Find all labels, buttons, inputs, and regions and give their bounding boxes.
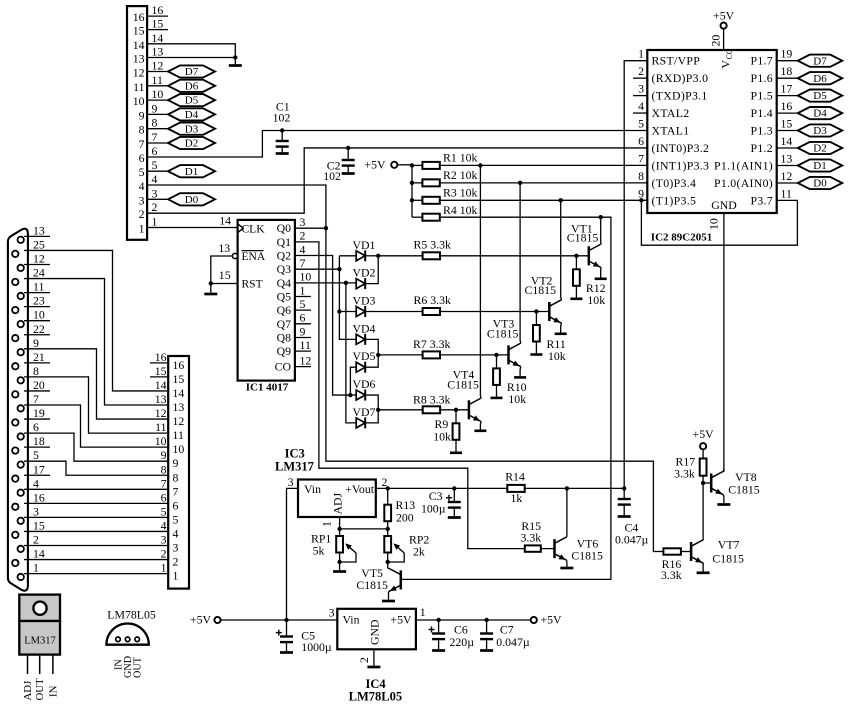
wire VT2 collector: [560, 200, 563, 299]
trimmer RP1: [339, 529, 341, 536]
svg-text:6: 6: [139, 151, 145, 165]
node D2 flag at X1 pin 7: [168, 137, 215, 149]
wire VD5 anode from Q2 node: [350, 367, 356, 395]
wire R7 row to VT3 base: [378, 354, 508, 356]
svg-text:5: 5: [638, 117, 644, 131]
svg-text:102: 102: [323, 169, 341, 183]
svg-text:13: 13: [33, 223, 45, 237]
svg-text:+5V: +5V: [541, 613, 563, 627]
wire IC1 Q4 to VD2 and VD7 anodes: [295, 282, 356, 284]
ground at VT4 emitter: [474, 429, 486, 432]
svg-text:7: 7: [300, 256, 306, 270]
wire IC1 Q8 stub: [295, 336, 311, 338]
svg-text:6: 6: [33, 420, 39, 434]
svg-text:3: 3: [173, 541, 179, 555]
svg-text:7: 7: [638, 151, 644, 165]
svg-text:9: 9: [161, 448, 167, 462]
svg-text:(T1)P3.5: (T1)P3.5: [652, 193, 697, 207]
resistor R8: [423, 406, 440, 413]
svg-text:C1815: C1815: [571, 549, 603, 563]
svg-text:22: 22: [33, 322, 45, 336]
resistor R4: [412, 216, 422, 218]
ground at R12: [570, 297, 582, 300]
svg-text:19: 19: [781, 47, 793, 61]
svg-text:2: 2: [300, 229, 306, 243]
wire VT7 collector diag join: [702, 537, 704, 540]
connector X2 DB25 pin 15 contact: [12, 532, 18, 538]
svg-text:R2 10k: R2 10k: [443, 168, 478, 182]
wire IC1 Q7 stub: [295, 323, 311, 325]
wire X2 pin 3 to X3 pin 5: [24, 516, 168, 518]
svg-text:5: 5: [33, 448, 39, 462]
svg-text:R7 3.3k: R7 3.3k: [413, 337, 450, 351]
wire pull-up spine: [411, 165, 413, 217]
wire X1 pin 2 to IC2 P3.2 (with C2): [147, 148, 647, 213]
svg-text:9: 9: [139, 108, 145, 122]
wire X1 pin 1 to IC1 CLK: [147, 227, 238, 229]
svg-text:200: 200: [396, 511, 414, 525]
svg-text:D6: D6: [185, 80, 199, 92]
svg-text:10: 10: [33, 308, 45, 322]
svg-text:12: 12: [173, 414, 185, 428]
resistor R9: [455, 410, 457, 424]
wire X2 pin 19 stub: [24, 418, 50, 420]
wire X2 pin 13 stub: [24, 235, 50, 237]
wire IC2 pin4 stub: [633, 112, 647, 114]
svg-text:C1815: C1815: [567, 231, 599, 245]
svg-text:RST/VPP: RST/VPP: [652, 54, 701, 68]
svg-text:13: 13: [152, 45, 164, 59]
svg-text:C1815: C1815: [728, 483, 760, 497]
svg-text:11: 11: [152, 73, 163, 87]
svg-text:LM78L05: LM78L05: [107, 608, 156, 622]
wire X1 pin13 to ground: [147, 57, 235, 59]
svg-text:8: 8: [638, 169, 644, 183]
wire X1 pin15 stub: [147, 29, 168, 31]
wire X1 pin 12 to flag: [147, 71, 168, 73]
wire VD5 cathode up to R7 node: [365, 355, 378, 367]
svg-text:R8 3.3k: R8 3.3k: [413, 393, 450, 407]
junction C5 / IC3 Vin riser: [284, 618, 288, 622]
svg-text:12: 12: [33, 252, 45, 266]
junction R9 top: [454, 408, 458, 412]
svg-text:8: 8: [173, 470, 179, 484]
svg-text:10k: 10k: [433, 429, 451, 443]
IC3 LM317 body: [298, 480, 376, 518]
resistor R12: [575, 256, 577, 269]
connector X2 DB25 pin 3 contact: [18, 518, 24, 524]
wire VT4 collector: [479, 165, 482, 398]
svg-text:VD7: VD7: [353, 405, 376, 419]
wire X2 pin 22 stub: [24, 334, 50, 336]
svg-text:14: 14: [155, 378, 167, 392]
svg-text:D0: D0: [185, 194, 199, 206]
wire IC1 Q1 route to R15 to VT6 base: [295, 242, 525, 549]
wire VT5 collector: [387, 567, 390, 569]
wire IC1 Q0 to node: [295, 227, 326, 229]
wire IC2 pin 14 to flag: [777, 147, 798, 149]
svg-text:12: 12: [300, 353, 312, 367]
svg-text:4: 4: [300, 242, 306, 256]
svg-text:ENA: ENA: [242, 251, 266, 263]
svg-text:Q1: Q1: [277, 235, 292, 249]
svg-text:RST: RST: [242, 279, 263, 291]
svg-text:R5 3.3k: R5 3.3k: [414, 238, 451, 252]
svg-text:Q5: Q5: [277, 290, 292, 304]
svg-text:17: 17: [781, 82, 793, 96]
wire X2 pin 16 to X3 pin 6: [24, 502, 168, 504]
svg-text:9: 9: [33, 336, 39, 350]
junction VT2 collector on pull-up row: [559, 198, 563, 202]
svg-text:13: 13: [173, 400, 185, 414]
ground at X1 pins 13/14: [234, 58, 236, 66]
wire VT7 emitter to ground: [702, 563, 704, 573]
wire X1 pin 8 to flag: [147, 128, 168, 130]
connector X2 DB25 pin 18 contact: [12, 447, 18, 453]
node D4 flag at IC2 pin 16: [798, 107, 842, 119]
svg-text:ADJ: ADJ: [22, 681, 34, 701]
diode VD1: [356, 251, 365, 261]
connector X2 DB25 pin 7 contact: [18, 405, 24, 411]
svg-text:2k: 2k: [413, 545, 425, 559]
svg-text:+5V: +5V: [693, 427, 715, 441]
svg-text:8: 8: [161, 462, 167, 476]
ground at VT7 emitter: [697, 571, 710, 574]
transistor VT8 C1815: [710, 474, 713, 493]
node D1 flag at X1 pin 5: [168, 165, 215, 177]
IC2 Vcc pin 20: [723, 29, 725, 50]
junction VT4 collector on pull-up row: [478, 163, 482, 167]
resistor R3: [412, 199, 422, 201]
svg-text:3: 3: [152, 186, 158, 200]
connector X2 DB25 pin 14 contact: [12, 560, 18, 566]
svg-text:(TXD)P3.1: (TXD)P3.1: [652, 89, 708, 103]
svg-text:3.3k: 3.3k: [674, 467, 695, 481]
wire VD6 anode: [350, 394, 356, 396]
wire VT4 emitter to ground: [479, 422, 482, 431]
wire X1 pin 5 to flag: [147, 170, 168, 172]
svg-text:16: 16: [152, 3, 164, 17]
svg-text:P3.7: P3.7: [750, 193, 773, 207]
svg-text:VD5: VD5: [353, 349, 376, 363]
svg-text:5: 5: [300, 297, 306, 311]
ground at VT6 emitter: [560, 567, 573, 570]
svg-text:(RXD)P3.0: (RXD)P3.0: [652, 71, 709, 85]
junction R7 node: [376, 353, 380, 357]
svg-text:Q4: Q4: [277, 276, 292, 290]
wire IC1 ENA to ground: [211, 256, 233, 284]
junction R8 node: [376, 408, 380, 412]
wire VT6 emitter to ground: [566, 560, 568, 568]
svg-text:6: 6: [300, 311, 306, 325]
svg-text:19: 19: [33, 406, 45, 420]
svg-text:7: 7: [173, 484, 179, 498]
connector X2 DB25 pin 22 contact: [12, 335, 18, 341]
svg-text:D4: D4: [813, 108, 827, 120]
svg-text:VD2: VD2: [353, 266, 376, 280]
wire IC2 pin1 RST/VPP to VPP node: [624, 61, 647, 489]
svg-text:3: 3: [139, 193, 145, 207]
connector X2 DB25 pin 16 contact: [12, 504, 18, 510]
svg-text:5: 5: [152, 158, 158, 172]
svg-text:1: 1: [161, 561, 167, 575]
svg-text:14: 14: [133, 38, 145, 52]
svg-text:P1.2: P1.2: [750, 141, 773, 155]
svg-text:D5: D5: [813, 90, 827, 102]
wire X3 pin15 stub: [150, 376, 168, 378]
ground at VT8 emitter: [717, 503, 730, 506]
node D5 flag at IC2 pin 17: [798, 90, 842, 102]
wire X2 pin 4 to X3 pin 7: [24, 488, 168, 490]
svg-text:D1: D1: [813, 160, 826, 172]
+5V terminal at IC2 Vcc: [721, 23, 727, 29]
connector X2 DB25 pin 1 contact: [18, 574, 24, 580]
svg-text:16: 16: [133, 10, 145, 24]
svg-text:R14: R14: [505, 470, 525, 484]
connector X2 DB25 pin 24 contact: [12, 279, 18, 285]
node D5 flag at X1 pin 10: [168, 94, 215, 106]
svg-text:IC3: IC3: [285, 447, 305, 461]
wire VT3 collector: [519, 183, 522, 343]
svg-text:3.3k: 3.3k: [661, 568, 682, 582]
svg-text:10: 10: [133, 94, 145, 108]
capacitor C4 0.047u: [623, 488, 625, 499]
ground at VT3 emitter: [514, 376, 526, 379]
svg-text:15: 15: [152, 17, 164, 31]
svg-text:2: 2: [357, 657, 371, 663]
svg-text:P1.1(AIN1): P1.1(AIN1): [714, 159, 773, 173]
svg-text:12: 12: [781, 169, 793, 183]
wire IC3 Vin pin3 down to +5V rail: [287, 488, 299, 620]
wire X1 pin14 to ground: [147, 44, 235, 58]
LM78L05 package pins: [116, 637, 121, 642]
wire IC2 pin2 stub: [633, 77, 647, 79]
svg-text:+Vout: +Vout: [345, 482, 374, 496]
wire IC1 Q5 stub: [295, 296, 311, 298]
resistor R15: [525, 545, 541, 551]
wire VT5 emitter to ground: [388, 592, 390, 601]
svg-text:100µ: 100µ: [421, 502, 446, 516]
wire IC4 output rail: [416, 619, 531, 621]
LM317 package hole: [33, 602, 46, 615]
svg-text:1k: 1k: [511, 491, 523, 505]
wire +5V to spine: [397, 164, 412, 166]
svg-text:R4 10k: R4 10k: [443, 203, 478, 217]
wire VD4 cathode down to R7 node: [365, 339, 378, 355]
wire R1 to IC2 pin7: [440, 164, 648, 166]
wire IC2 pin 17 to flag: [777, 95, 798, 97]
ground at RP1: [339, 562, 341, 572]
wire X2 pin 18 stub: [24, 446, 50, 448]
wire VT1 emitter to ground: [600, 268, 602, 279]
svg-text:4: 4: [173, 526, 179, 540]
wire VD7 cathode up to R8 node: [365, 410, 378, 423]
svg-text:3: 3: [300, 215, 306, 229]
capacitor C2: [347, 148, 349, 160]
node D2 flag at IC2 pin 14: [798, 142, 842, 154]
junction R11 top: [534, 309, 538, 313]
wire X2 pin 23 stub: [24, 306, 50, 308]
svg-text:D6: D6: [813, 73, 827, 85]
svg-text:9: 9: [173, 456, 179, 470]
svg-text:10: 10: [155, 434, 167, 448]
svg-text:GND: GND: [711, 198, 737, 212]
svg-text:D3: D3: [185, 123, 199, 135]
svg-text:4: 4: [33, 476, 39, 490]
svg-text:D5: D5: [185, 95, 199, 107]
svg-text:5: 5: [173, 512, 179, 526]
svg-text:4: 4: [638, 99, 644, 113]
connector X2 DB25 pin 4 contact: [18, 490, 24, 496]
svg-text:13: 13: [781, 152, 793, 166]
LM317 package body: [19, 621, 60, 655]
wire X2 pin 11 stub: [24, 292, 50, 294]
wire IC1 Q2 to VD5/VD6 anodes: [295, 256, 351, 396]
svg-text:12: 12: [133, 66, 145, 80]
connector X2 DB25 pin 13 contact: [18, 237, 24, 243]
svg-text:Q7: Q7: [277, 317, 292, 331]
wire R4 row to VT5 base: [401, 217, 611, 579]
junction R10 top: [494, 353, 498, 357]
svg-text:7: 7: [161, 476, 167, 490]
resistor R11: [535, 312, 537, 326]
svg-text:IC1 4017: IC1 4017: [246, 382, 289, 394]
wire VT2 emitter to ground: [560, 323, 563, 334]
capacitor C6 220u: [438, 620, 440, 634]
svg-text:14: 14: [33, 547, 45, 561]
svg-text:9: 9: [152, 101, 158, 115]
node D4 flag at X1 pin 9: [168, 108, 215, 120]
svg-text:XTAL1: XTAL1: [652, 124, 690, 138]
svg-text:13: 13: [155, 392, 167, 406]
svg-text:5: 5: [139, 165, 145, 179]
RP2 wiper arrow: [395, 545, 404, 553]
svg-text:CLK: CLK: [242, 223, 266, 235]
svg-text:11: 11: [133, 80, 144, 94]
svg-text:IN: IN: [47, 685, 59, 697]
svg-text:0.047µ: 0.047µ: [615, 533, 649, 547]
ground at R10: [491, 397, 503, 400]
wire X1 pin 7 to flag: [147, 142, 168, 144]
svg-text:D0: D0: [813, 178, 827, 190]
trimmer RP2: [387, 529, 389, 536]
wire IC1 Q9 stub: [295, 350, 311, 352]
connector X2 DB25 pin 6 contact: [18, 433, 24, 439]
svg-text:P1.7: P1.7: [750, 54, 773, 68]
wire X2 pin 12 stub: [24, 264, 50, 266]
junction ENA/RST: [209, 281, 213, 285]
svg-text:25: 25: [33, 237, 45, 251]
wire X2 pin 21 stub: [24, 362, 50, 364]
wire IC2 pin 16 to flag: [777, 112, 798, 114]
resistor R1: [412, 164, 422, 166]
resistor R13: [386, 486, 390, 490]
transistor VT2 C1815: [548, 302, 551, 321]
wire IC2 pin 12 to flag: [777, 182, 798, 184]
wire IC1 Q3 to VD1/VD3/VD4 anodes: [295, 268, 340, 270]
wire IC2 pin 15 to flag: [777, 130, 798, 132]
svg-text:14: 14: [173, 386, 185, 400]
resistor R7: [423, 351, 440, 358]
svg-text:23: 23: [33, 294, 45, 308]
wire R6 row VD3 cathode to VT2 base: [365, 311, 549, 313]
node D6 flag at IC2 pin 18: [798, 72, 842, 84]
svg-text:2: 2: [152, 200, 158, 214]
wire X1 pin 11 to flag: [147, 85, 168, 87]
IC1 CLK input wedge: [238, 224, 244, 233]
diode VD4: [356, 334, 365, 344]
svg-text:Vin: Vin: [304, 482, 321, 496]
svg-text:7: 7: [33, 392, 39, 406]
svg-text:C1815: C1815: [712, 552, 744, 566]
wire R16 to VT7 base: [681, 551, 691, 553]
svg-text:R3 10k: R3 10k: [443, 186, 478, 200]
wire VT8 emitter to ground: [723, 495, 725, 505]
svg-text:LM78L05: LM78L05: [349, 690, 402, 704]
svg-text:OUT: OUT: [133, 656, 144, 678]
connector X2 DB25 pin 2 contact: [18, 546, 24, 552]
resistor R2: [412, 182, 422, 184]
svg-text:4: 4: [161, 518, 167, 532]
svg-text:14: 14: [152, 31, 164, 45]
svg-text:15: 15: [133, 24, 145, 38]
transistor VT4 C1815: [468, 400, 471, 419]
wire IC3 Vout row: [376, 487, 508, 489]
wire X2 pin 14 to X3 pin 2: [24, 559, 168, 561]
svg-text:3: 3: [288, 475, 294, 489]
svg-text:21: 21: [33, 350, 45, 364]
connector X3 16-pin header box: [168, 356, 189, 589]
svg-text:6: 6: [173, 498, 179, 512]
junction VT3 collector on pull-up row: [518, 181, 522, 185]
diode VD2: [356, 279, 365, 289]
connector X1 16-pin header box: [127, 6, 147, 240]
wire X2 pin 1 to X3 pin 1: [24, 573, 168, 575]
svg-text:220µ: 220µ: [450, 635, 475, 649]
wire X2 pin 15 to X3 pin 4: [24, 530, 168, 532]
svg-text:Vin: Vin: [343, 613, 360, 627]
svg-text:+5V: +5V: [390, 613, 412, 627]
ground at VT5 emitter: [382, 600, 395, 603]
wire IC2 pin9 junction to pin11 P3.7: [639, 198, 643, 202]
svg-text:11: 11: [33, 280, 44, 294]
svg-text:9: 9: [300, 324, 306, 338]
capacitor C1: [281, 131, 283, 142]
svg-text:D1: D1: [185, 166, 198, 178]
wire IC1 RST: [211, 283, 238, 285]
svg-text:R1 10k: R1 10k: [443, 151, 478, 165]
transistor VT3 C1815: [507, 345, 510, 364]
svg-text:8: 8: [139, 123, 145, 137]
svg-text:1: 1: [139, 222, 145, 236]
svg-text:2: 2: [139, 207, 145, 221]
svg-text:2: 2: [161, 547, 167, 561]
svg-text:GND: GND: [368, 619, 382, 645]
node D7 flag at X1 pin 12: [168, 65, 215, 77]
svg-text:(T0)P3.4: (T0)P3.4: [652, 176, 697, 190]
wire VT8 base: [703, 482, 711, 484]
svg-text:P1.4: P1.4: [750, 106, 773, 120]
capacitor C7 0.047u: [486, 620, 488, 634]
wire VT7 collector to VT8 base node: [702, 483, 704, 537]
svg-text:Q6: Q6: [277, 303, 292, 317]
svg-text:(INT1)P3.3: (INT1)P3.3: [652, 158, 710, 172]
wire VD6 cathode down to R8 node: [365, 395, 378, 410]
connector X2 DB25 pin 20 contact: [12, 391, 18, 397]
LM317 package leads: [27, 655, 29, 674]
svg-text:1: 1: [173, 569, 179, 583]
wire R15 to VT6 base: [541, 548, 555, 550]
